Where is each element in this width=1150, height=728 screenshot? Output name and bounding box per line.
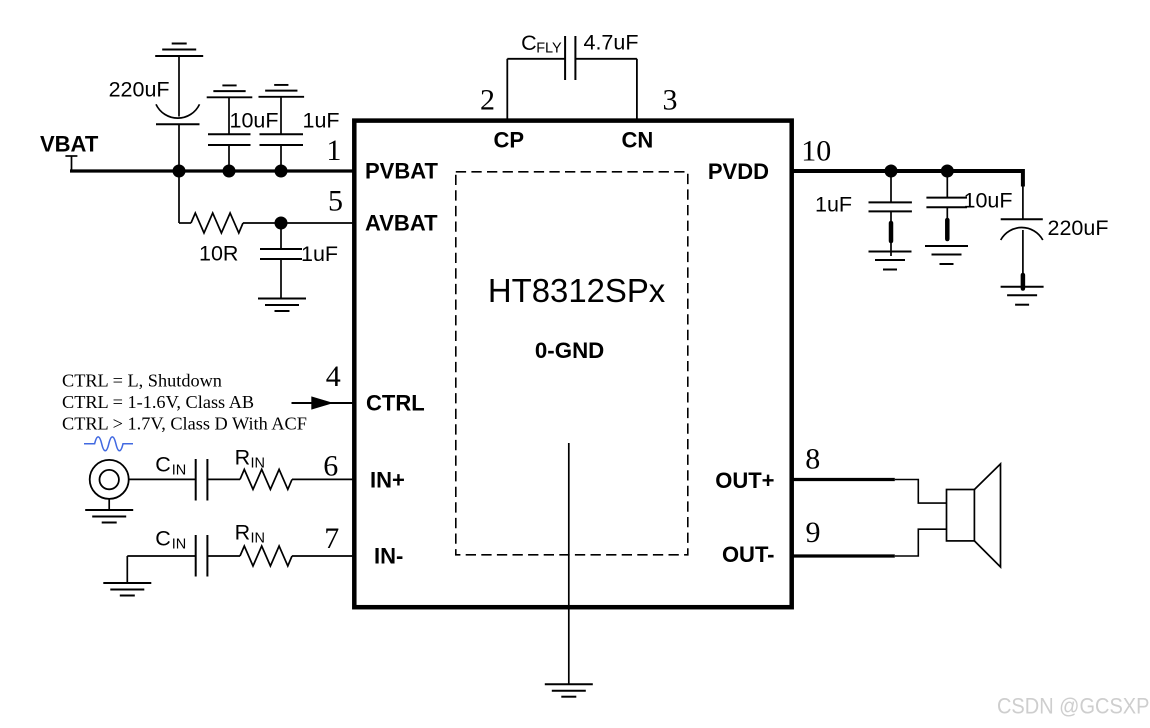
wire CIN to RIN (IN-) [207,555,240,557]
audio source squiggle (blue) [84,437,133,451]
svg-text:CTRL > 1.7V, Class D With ACF: CTRL > 1.7V, Class D With ACF [62,414,307,434]
wire OUT- pin 9 (thick) [792,554,895,557]
capacitor 1uF (right) [869,171,912,256]
svg-text:1: 1 [326,134,341,167]
junction node at right 10uF [941,165,954,178]
ground (right 10uF) [925,246,968,264]
wire CP pin 2 up [506,59,508,120]
ground (above 10uF) [207,85,253,97]
svg-text:CTRL: CTRL [366,391,425,416]
svg-text:IN+: IN+ [370,468,405,493]
svg-text:10R: 10R [199,242,238,266]
svg-text:AVBAT: AVBAT [365,211,438,236]
ground (IN- input) [103,583,151,596]
wire PVDD corner stub [1021,169,1025,187]
svg-text:CTRL = 1-1.6V, Class AB: CTRL = 1-1.6V, Class AB [62,392,254,412]
capacitor CIN (IN+) [196,459,208,501]
junction node at right 1uF [885,165,898,178]
svg-text:10uF: 10uF [964,189,1013,213]
wire RIN to IN+ pin 6 [292,478,354,480]
wire into CTRL pin 4 [292,402,355,404]
ground (bottom center) [545,684,593,697]
svg-text:10: 10 [801,135,831,168]
resistor RIN (IN+) [240,469,292,489]
capacitor CIN (IN-) [196,535,208,577]
wire CP to CFLY [507,58,565,60]
ground (right 220uF) [1001,287,1044,305]
svg-text:HT8312SPx: HT8312SPx [488,272,666,309]
svg-text:IN: IN [251,531,266,547]
arrow into CTRL [311,396,333,409]
capacitor 10uF (left) [208,97,251,171]
svg-text:R: R [235,521,251,545]
wire ground to CIN (IN-) [127,555,195,557]
wire CFLY to CN [575,58,637,60]
wire OUT+ pin 8 (thick) [792,478,895,481]
svg-text:IN: IN [172,537,187,553]
thick lead (right 220uF) [1021,275,1026,289]
svg-text:CTRL = L, Shutdown: CTRL = L, Shutdown [62,371,222,391]
wire OUT- to speaker [895,529,947,556]
svg-text:10uF: 10uF [230,109,279,133]
svg-text:C: C [155,527,171,551]
svg-text:IN: IN [251,456,266,472]
capacitor 220uF (right, polarized) [1001,187,1043,274]
svg-text:0-GND: 0-GND [535,338,604,363]
svg-text:7: 7 [324,522,339,555]
svg-text:CSDN @GCSXP: CSDN @GCSXP [997,695,1149,719]
wire RIN to IN- pin 7 [292,555,354,557]
wire jack to CIN [129,478,196,480]
svg-text:1uF: 1uF [303,109,340,133]
svg-text:CP: CP [494,128,525,153]
svg-text:220uF: 220uF [109,78,170,102]
wire CN pin 3 down [636,59,638,120]
svg-text:C: C [521,31,537,55]
junction node at 10uF [223,165,236,178]
wire jack to ground [108,499,110,510]
wire 0-GND to ground [568,443,570,684]
svg-text:6: 6 [323,450,338,483]
capacitor 10uF (right) [926,171,967,219]
capacitor 1uF (left top) [260,97,304,171]
capacitor CFLY 4.7uF [565,36,575,80]
thick lead (right 1uF) [889,223,894,241]
svg-text:C: C [155,453,171,477]
svg-text:4: 4 [326,360,341,393]
svg-text:9: 9 [806,516,821,549]
junction node at 1uF [275,165,288,178]
svg-text:2: 2 [480,84,495,117]
capacitor 220uF (left, polarized) [156,56,200,171]
resistor 10R [179,222,191,224]
svg-text:IN-: IN- [374,544,403,569]
junction node at 220uF [173,165,186,178]
svg-text:OUT-: OUT- [722,542,775,567]
svg-text:CN: CN [622,128,654,153]
wire OUT+ to speaker [895,480,947,504]
junction node at AVBAT [275,217,288,230]
svg-text:OUT+: OUT+ [715,468,774,493]
svg-text:PVDD: PVDD [708,159,769,184]
svg-text:4.7uF: 4.7uF [584,31,639,55]
svg-text:IN: IN [172,463,187,479]
input jack connector [90,460,129,499]
svg-text:R: R [235,446,251,470]
ground stub (IN- input) [126,556,128,583]
ground (below AVBAT 1uF) [258,299,306,312]
speaker [947,490,975,541]
svg-text:1uF: 1uF [815,193,852,217]
svg-text:1uF: 1uF [301,242,338,266]
svg-text:PVBAT: PVBAT [365,159,438,184]
wire CIN to RIN [207,478,240,480]
ground (above 1uF) [259,85,305,97]
thick lead (right 10uF) [945,220,950,239]
wire VBAT to PVBAT pin 1 [70,169,354,172]
svg-text:220uF: 220uF [1048,216,1109,240]
dashed internal boundary [456,172,688,555]
svg-text:VBAT: VBAT [40,132,99,157]
VBAT stub wire [65,155,77,157]
svg-text:FLY: FLY [536,41,562,57]
svg-text:5: 5 [328,185,343,218]
svg-text:8: 8 [805,443,820,476]
capacitor 1uF (AVBAT decoupling) [260,223,302,298]
ground (right 1uF) [869,252,912,270]
ground (jack) [85,510,133,523]
ground (above 220uF) [155,44,203,57]
wire branch down to AVBAT resistor [178,171,180,223]
svg-text:3: 3 [663,84,678,117]
IC body HT8312SPx [354,121,791,608]
wire resistor to AVBAT pin 5 [243,222,354,224]
wire PVDD pin 10 [792,169,1023,173]
resistor RIN (IN-) [240,546,292,566]
